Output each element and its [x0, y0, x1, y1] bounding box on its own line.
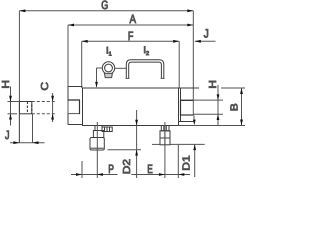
svg-text:H: H	[0, 80, 12, 89]
side view inner dashed	[26, 102, 28, 114]
dimension D2 line	[136, 110, 138, 178]
body left edge extension down	[81, 161, 83, 178]
svg-text:C: C	[39, 82, 51, 91]
svg-text:A: A	[130, 12, 137, 26]
dimension H left	[10, 87, 12, 126]
svg-text:G: G	[101, 0, 108, 12]
svg-text:P: P	[108, 162, 114, 176]
body top line	[68, 86, 83, 88]
J bottom extension lines	[18, 114, 20, 143]
eye bolt nut	[104, 73, 112, 77]
bottom dimension line	[71, 174, 118, 176]
dimension F line	[82, 40, 180, 43]
left cap slab	[67, 87, 69, 125]
H left extension lines	[8, 101, 20, 103]
extension line F left	[81, 41, 83, 88]
svg-text:D2: D2	[120, 159, 132, 175]
svg-text:I1: I1	[106, 46, 112, 58]
svg-text:E: E	[147, 162, 153, 176]
extension line right (G/A/J + right port face)	[192, 11, 194, 100]
body	[83, 88, 179, 126]
right fitting bottom extension	[152, 143, 160, 145]
bottom right fitting	[160, 126, 170, 145]
extension line left (G / side square left edge)	[18, 11, 20, 143]
body top extension to B	[221, 87, 245, 89]
left port square	[68, 100, 80, 114]
svg-text:H: H	[207, 80, 219, 89]
right cap slab	[180, 88, 182, 122]
dimension B	[241, 88, 243, 126]
H right extension lines	[193, 99, 223, 101]
dimension J top right	[195, 40, 216, 43]
eye bolt ring	[102, 62, 114, 74]
svg-text:I2: I2	[143, 45, 149, 57]
handle	[126, 60, 164, 79]
right fitting centerline	[164, 122, 166, 178]
svg-text:B: B	[228, 103, 240, 111]
dimension A line	[68, 24, 193, 27]
dimension H right	[217, 85, 219, 126]
extension line A left	[67, 25, 69, 87]
body bottom extension to B	[179, 125, 246, 127]
eye bolt leader	[97, 67, 103, 69]
svg-text:J: J	[5, 128, 10, 142]
handle feet	[126, 77, 130, 79]
dimension J bottom left	[10, 142, 45, 144]
dimension G line	[19, 9, 193, 12]
left fitting centerline	[96, 122, 98, 178]
dash right of eye	[115, 67, 126, 69]
bottom left fitting	[90, 126, 112, 151]
svg-text:D1: D1	[180, 155, 192, 171]
svg-text:F: F	[128, 29, 133, 43]
side view dashed extensions right	[32, 101, 56, 103]
extension line F right	[178, 41, 180, 88]
right port square	[181, 100, 194, 115]
body right edge extension down	[177, 145, 179, 178]
dimension D1 line	[193, 116, 195, 121]
svg-text:J: J	[204, 27, 209, 41]
arrows on bottom line	[76, 173, 82, 176]
side view square	[19, 102, 31, 114]
left fitting bottom extension	[108, 149, 142, 151]
dimension C	[52, 93, 54, 122]
